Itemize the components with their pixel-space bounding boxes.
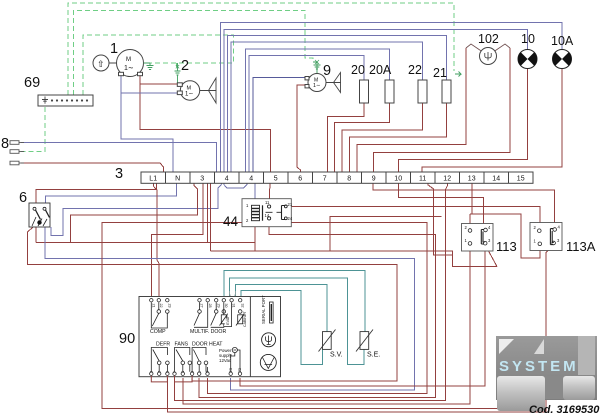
svg-text:31: 31	[232, 304, 236, 308]
wire: strip 14 to 113 p2 and 113A p1	[470, 183, 540, 258]
lamp 10A	[553, 50, 572, 69]
svg-text:13: 13	[468, 175, 476, 182]
wire: teal board31 to SE bottom	[229, 278, 364, 365]
svg-text:14: 14	[265, 213, 270, 218]
EVAP probe symbol	[220, 302, 232, 326]
svg-text:DEFR: DEFR	[156, 342, 170, 348]
svg-text:102: 102	[478, 32, 499, 46]
svg-text:7: 7	[323, 175, 327, 182]
svg-text:21: 21	[433, 66, 447, 80]
wire: blue nest 4a-4 to resistor 22	[231, 42, 423, 172]
MULTIF DOOR contacts	[194, 302, 224, 327]
wire: strip 3 to board t21	[151, 183, 203, 297]
wire: board t8 long loop left	[102, 223, 546, 409]
jumper t1-t3	[151, 376, 167, 382]
svg-text:SERIAL PORT: SERIAL PORT	[261, 295, 266, 324]
wire: pressostat 102 right leg to strip 9	[374, 48, 511, 172]
svg-text:14: 14	[492, 175, 500, 182]
svg-text:32: 32	[240, 304, 244, 308]
probe S.V.	[319, 330, 336, 352]
resistor 21	[442, 80, 451, 103]
svg-text:S.E.: S.E.	[367, 352, 380, 359]
pressostat 102	[466, 44, 510, 52]
wire: board t4 to strip 12	[175, 183, 448, 400]
svg-text:11: 11	[265, 200, 270, 205]
wire: probe shield curve	[229, 291, 235, 298]
wire: blue nest 4b-1 to resistor 20A	[246, 49, 390, 172]
wire: blue nest 4a-3 to resistor 21	[228, 36, 447, 173]
svg-text:11: 11	[419, 175, 426, 182]
jumper t4-t6	[175, 376, 193, 382]
svg-text:5: 5	[274, 175, 278, 182]
svg-text:12Vac: 12Vac	[219, 358, 232, 363]
board bottom terminals	[150, 372, 242, 375]
wire: teal board33 to SV bottom	[241, 291, 323, 365]
wire: 113 pin1 riser and drop to board t5	[183, 245, 470, 404]
wire: switch6 red bottom bus 264	[28, 227, 397, 381]
svg-text:113A: 113A	[566, 239, 596, 254]
lamp 10	[518, 50, 537, 69]
wire: strip L1 down to board t22	[153, 183, 159, 297]
svg-text:10: 10	[394, 175, 402, 182]
wire: blue nest 4a-2 to lamp 10	[224, 30, 528, 173]
terminal strip 3	[141, 172, 533, 183]
svg-text:21: 21	[288, 202, 293, 207]
svg-text:N: N	[175, 175, 180, 182]
svg-text:1∼: 1∼	[124, 65, 134, 72]
wire: strip 3 red left to x70 drop	[70, 183, 197, 243]
FANS section	[175, 348, 192, 372]
svg-text:6: 6	[19, 190, 27, 206]
svg-text:15: 15	[517, 175, 525, 182]
relay 44	[242, 199, 291, 227]
resistor 22	[418, 80, 427, 103]
wire: lamp 10 bottom to strip 10	[398, 69, 527, 173]
svg-text:L1: L1	[149, 175, 157, 182]
svg-text:23: 23	[167, 304, 171, 308]
svg-text:8: 8	[347, 175, 351, 182]
wire: teal board32 to SV top	[236, 284, 327, 331]
svg-text:27: 27	[200, 304, 204, 308]
svg-text:12: 12	[443, 175, 451, 182]
resistor 20	[360, 80, 369, 103]
svg-text:DOOR HEAT: DOOR HEAT	[192, 342, 223, 348]
COMP relay contacts	[151, 302, 169, 328]
svg-text:3: 3	[200, 175, 204, 182]
svg-text:2: 2	[181, 58, 189, 74]
wire: strip 3 drop to bus 251	[209, 183, 211, 251]
svg-text:20A: 20A	[369, 63, 392, 77]
strip labels	[149, 175, 524, 182]
svg-text:1∼: 1∼	[313, 83, 321, 89]
svg-text:21: 21	[151, 304, 155, 308]
wire: blue nest 4b-3 to motor 9	[253, 78, 306, 173]
wire: main red bus 251 to 113	[210, 251, 497, 267]
motor 1 pump circle	[93, 55, 117, 71]
wire: 113A pin3 wire to board t3	[167, 245, 553, 412]
wire: strip 4b blue to relay coil	[254, 183, 256, 203]
board top terminal numbers	[151, 304, 244, 308]
wire: motor1 to motor2 lower	[121, 92, 178, 94]
wire: motor1 to motor2 upper	[140, 83, 178, 85]
svg-text:90: 90	[119, 331, 135, 347]
wire: blue mains in from connector 8 to strip 4a	[21, 143, 216, 173]
wire: green ground bus top1	[68, 3, 454, 95]
svg-text:22: 22	[159, 304, 163, 308]
resistor 20A	[385, 80, 394, 103]
ground symbol motor 2	[175, 63, 181, 83]
svg-text:20: 20	[351, 63, 365, 77]
wire: switch6 blue bottom bus 258 to board C1	[45, 227, 415, 390]
DEFR section	[151, 348, 169, 372]
wire: relay44 coil2 down join bus	[254, 227, 256, 251]
svg-text:10A: 10A	[551, 34, 574, 48]
svg-text:29: 29	[216, 304, 220, 308]
psi circle	[262, 333, 276, 347]
green arrow at 21	[455, 72, 461, 77]
svg-text:CABINET: CABINET	[243, 311, 247, 327]
svg-text:MULTIF. DOOR: MULTIF. DOOR	[190, 329, 226, 335]
wire: strip 11 below to bus corner	[428, 183, 452, 255]
wire: switch6 bottom to y242 line long	[36, 227, 255, 243]
pressure switch 113	[462, 224, 494, 252]
wire: resistor 21 to strip 8	[349, 103, 446, 172]
svg-text:44: 44	[223, 214, 239, 229]
V circle	[260, 354, 276, 370]
pressure switch 113A	[530, 223, 562, 251]
CABINET probe symbol	[236, 310, 244, 326]
ground symbol motor 9	[313, 60, 321, 74]
ground symbol in bar 69	[42, 97, 48, 103]
motor 2	[177, 81, 208, 100]
SYSTEM 4 logo	[496, 336, 600, 416]
svg-text:SYSTEM: SYSTEM	[499, 358, 579, 375]
probe S.E.	[356, 330, 373, 352]
svg-text:10: 10	[521, 32, 535, 46]
svg-text:9: 9	[372, 175, 376, 182]
wire: strip 5 to relay p11	[268, 183, 271, 204]
svg-text:4: 4	[249, 175, 253, 182]
wire: green from ground bar to connector 8	[21, 107, 45, 152]
wire: red mains in from connector 8 to strip L1	[21, 163, 164, 172]
wire: motor1 blue to strip N	[121, 75, 173, 172]
ground symbol right of motor 1	[144, 63, 154, 70]
wire: green ground bus3 to motor1/2 grounds	[83, 35, 234, 95]
wire: green stub motor2 ground	[176, 63, 178, 68]
wire: strip N to switch 6	[46, 183, 177, 203]
wire: pressostat 102 left leg to strip 8	[357, 48, 466, 172]
svg-text:⇧: ⇧	[97, 59, 105, 69]
wire: strip L1 to switch 6	[36, 183, 157, 203]
DOOR HEAT section	[192, 348, 208, 372]
svg-text:24: 24	[288, 216, 293, 221]
wire: 113 p2 feed	[469, 214, 471, 229]
svg-text:69: 69	[24, 75, 40, 91]
svg-text:113: 113	[496, 239, 517, 254]
svg-text:30: 30	[224, 304, 228, 308]
wire: strip 4a blue to comp6 hook	[51, 183, 221, 236]
svg-text:1∼: 1∼	[185, 92, 193, 98]
svg-text:9: 9	[323, 63, 331, 79]
door switch 6	[29, 203, 50, 227]
board top terminals	[150, 299, 242, 302]
svg-text:3: 3	[115, 166, 123, 182]
wire: blue nest 4a-1 to lamp 10A	[221, 23, 563, 173]
wire: strip 10 to 113 p4	[399, 183, 484, 228]
power supply symbol	[219, 348, 232, 363]
wire: resistor 22 to strip 8	[342, 103, 423, 172]
svg-text:Cod. 3169530: Cod. 3169530	[529, 404, 600, 416]
wire: resistor 20A to strip 7	[334, 103, 389, 172]
wire: motor1 red to strip 5	[140, 75, 270, 172]
svg-text:COMP: COMP	[150, 329, 166, 335]
svg-text:1: 1	[110, 41, 118, 57]
board bottom terminal numbers	[149, 368, 242, 373]
svg-text:S.V.: S.V.	[330, 352, 343, 359]
wire: board C2 to 113 pin3	[240, 245, 485, 386]
wire: blue nest 4b-2 to resistor 20	[249, 56, 364, 173]
svg-text:22: 22	[408, 63, 422, 77]
wire: green ground bus top2 to motor9	[74, 10, 314, 95]
wire: L wire 330 bus to 441 riser	[330, 217, 442, 252]
wire: 113 pin3 diagonal	[485, 245, 497, 267]
control board 90	[139, 297, 281, 377]
fan blades motor 2	[209, 78, 217, 103]
wire: teal board30 to SE top	[224, 271, 365, 332]
svg-text:FANS: FANS	[175, 342, 189, 348]
motor 1	[117, 50, 144, 77]
wire: motor9 red to strip 6	[297, 85, 308, 172]
wire: relay p21 to 113A p2	[286, 206, 540, 228]
wire: strip 9 to 113A p4	[373, 183, 555, 225]
wire: board t7 to relay p14	[199, 227, 435, 398]
fan blades motor 9	[334, 73, 341, 93]
wire: lamp 10A bottom to strip 11	[422, 69, 562, 173]
svg-text:EVAP: EVAP	[226, 315, 230, 325]
svg-text:8: 8	[1, 136, 9, 152]
svg-text:M: M	[126, 57, 131, 63]
svg-text:4: 4	[225, 175, 229, 182]
motor 9	[305, 74, 334, 92]
wire: strip 3 drop to y243 line	[206, 183, 208, 243]
ground bar 69	[38, 95, 93, 106]
wire: resistor 20 to strip 7	[328, 103, 364, 172]
svg-text:6: 6	[298, 175, 302, 182]
wire: blue jumper strip 4a-4b below	[224, 183, 247, 188]
connector 8 pins	[10, 141, 24, 165]
svg-text:28: 28	[208, 304, 212, 308]
